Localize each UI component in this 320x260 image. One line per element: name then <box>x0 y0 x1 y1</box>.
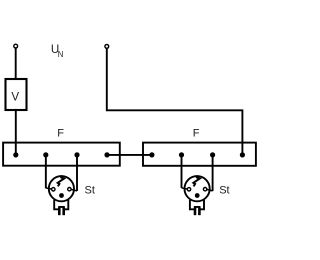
wire L3 to plug St1 <box>76 155 78 191</box>
wire between strips <box>107 154 152 156</box>
fuse strip F right <box>143 143 256 166</box>
wire R2 to plug St2 <box>181 155 183 188</box>
terminal L <box>14 44 18 48</box>
wire terminalL to voltmeter <box>15 48 17 79</box>
fuse strip F left <box>3 143 120 166</box>
wire L2 to plug St1 <box>45 155 47 188</box>
junction L2 <box>43 152 48 157</box>
plug St1 <box>46 175 77 215</box>
svg-text:F: F <box>57 128 64 140</box>
svg-text:St: St <box>85 185 95 197</box>
wire R3 to plug St2 <box>212 155 214 191</box>
svg-text:N: N <box>58 50 64 59</box>
junction R1 <box>149 152 154 157</box>
wire voltmeter to left strip <box>15 110 17 155</box>
junction L3 <box>74 152 79 157</box>
svg-text:V: V <box>11 91 19 104</box>
voltmeter V1 <box>6 79 27 110</box>
plug St2 <box>182 175 213 215</box>
junction L4 <box>104 152 109 157</box>
node UN label <box>51 43 64 59</box>
junction L1 <box>13 152 18 157</box>
terminal R <box>105 45 109 49</box>
junction R2 <box>179 152 184 157</box>
svg-text:St: St <box>219 185 229 197</box>
junction R4 <box>240 152 245 157</box>
wire terminalR to right strip (elbow) <box>107 48 243 155</box>
junction R3 <box>210 152 215 157</box>
svg-text:F: F <box>193 128 200 140</box>
